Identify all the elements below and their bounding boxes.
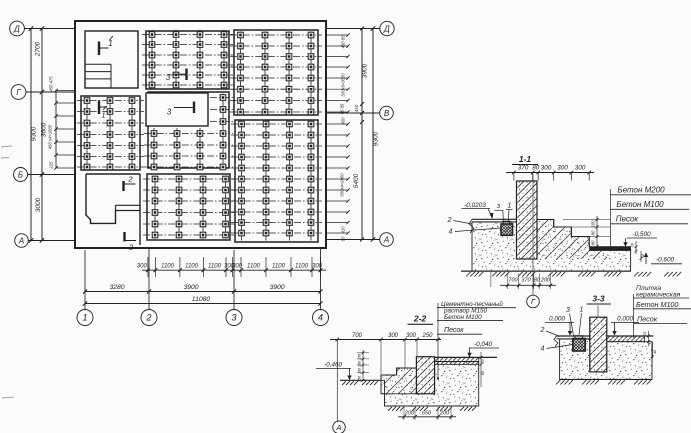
axis circle A right	[380, 233, 394, 247]
svg-text:85 85: 85 85	[340, 103, 345, 114]
svg-text:2: 2	[127, 175, 133, 184]
svg-text:-0,460: -0,460	[324, 362, 343, 369]
svg-text:1100: 1100	[161, 264, 175, 270]
right dimension line 3900/450/5400	[353, 27, 369, 242]
svg-text:1-1: 1-1	[519, 154, 532, 164]
svg-text:80: 80	[591, 240, 596, 245]
svg-text:2: 2	[145, 313, 151, 323]
section 1-1 axis circle G	[527, 295, 540, 308]
svg-text:3: 3	[566, 307, 570, 314]
svg-text:300: 300	[388, 333, 399, 339]
svg-text:9300: 9300	[31, 126, 38, 141]
section 2-2 mortar strip	[435, 357, 479, 364]
section 2-2 right depth dim	[480, 352, 485, 387]
svg-text:-0,500: -0,500	[632, 231, 651, 238]
svg-text:1100: 1100	[185, 264, 199, 270]
axis circle G left	[11, 85, 26, 100]
section 1-1 callout 1	[506, 203, 513, 222]
axis circle V right	[380, 106, 394, 120]
svg-text:370: 370	[518, 165, 529, 172]
section 2-2 base slab bottom	[385, 405, 479, 407]
svg-text:300: 300	[312, 264, 323, 270]
bottom span dimension row 3280/3900/3900	[83, 284, 323, 294]
axis line D (right)	[326, 28, 380, 30]
section 2-2 base slab hatching	[388, 407, 476, 411]
section 1-1 column socket	[501, 221, 513, 235]
svg-text:300: 300	[406, 333, 417, 339]
section 3-3 title	[587, 294, 612, 305]
svg-text:80: 80	[341, 236, 346, 241]
axis circle A left	[15, 234, 29, 248]
section 2-2 left ground hatching	[342, 381, 378, 385]
svg-text:2: 2	[540, 327, 545, 334]
svg-text:Б: Б	[18, 170, 23, 179]
svg-text:300: 300	[232, 264, 243, 270]
svg-text:300: 300	[575, 165, 586, 172]
section 2-2 axis extension to circle A	[336, 340, 338, 421]
section 3-3 wall block	[590, 317, 607, 372]
section 1-1 callout 4	[449, 228, 501, 236]
section 2-2 footing steps hatch	[381, 368, 416, 394]
axis circle 1	[77, 310, 93, 326]
svg-text:А: А	[18, 236, 24, 245]
svg-text:225: 225	[49, 161, 54, 170]
svg-text:Г: Г	[16, 88, 21, 97]
svg-text:Бетон М200: Бетон М200	[617, 186, 665, 195]
axis circle 2	[141, 310, 157, 326]
svg-text:450 х4=1800: 450 х4=1800	[48, 124, 53, 149]
svg-text:1100: 1100	[247, 264, 261, 270]
section 1-1 step height dims 100/80/80	[563, 216, 610, 248]
section flag 2 (room I)	[124, 175, 136, 192]
svg-text:100: 100	[591, 220, 596, 228]
pile field room D	[77, 96, 144, 170]
svg-text:Песок: Песок	[444, 327, 464, 334]
svg-text:250: 250	[421, 333, 433, 339]
section 1-1 material labels	[611, 186, 691, 224]
section 3-3 elevation 0.000 left	[545, 316, 574, 336]
svg-text:з: з	[496, 203, 501, 210]
section 2-2 material labels	[437, 300, 516, 334]
section 1-1 floor slab strip (right, -0.500)	[589, 247, 630, 251]
svg-text:4: 4	[318, 313, 323, 323]
section 3-3 column socket	[573, 336, 586, 351]
svg-text:Песок: Песок	[637, 315, 658, 324]
svg-text:3000: 3000	[35, 197, 42, 212]
svg-text:370: 370	[521, 278, 531, 284]
svg-text:В: В	[384, 109, 390, 118]
section 1-1 ground line	[461, 270, 631, 272]
axis line B (left)	[28, 174, 76, 176]
section 3-3 material leader line	[633, 294, 635, 338]
left overall dimension line 9300	[29, 26, 38, 242]
section 1-1 elevation -0.500	[623, 231, 657, 247]
svg-text:2: 2	[447, 217, 452, 224]
section 3-3 right thickness dims	[643, 331, 657, 358]
axis circle B left	[14, 168, 28, 182]
section 1-1 title	[512, 154, 538, 165]
section 1-1 footing steps hatch	[537, 220, 607, 260]
section 2-2 floor line right	[435, 356, 497, 358]
svg-text:1: 1	[82, 313, 87, 323]
svg-text:300: 300	[541, 165, 552, 172]
svg-text:4: 4	[541, 346, 545, 353]
svg-text:1100: 1100	[295, 264, 309, 270]
svg-text:1100: 1100	[272, 264, 286, 270]
axis line A (right)	[326, 239, 380, 241]
svg-text:4: 4	[449, 229, 453, 236]
section 3-3 floor line right	[607, 335, 654, 337]
section 3-3 ground hatching	[556, 380, 651, 384]
svg-text:100: 100	[358, 367, 362, 374]
pile field room H	[231, 120, 322, 242]
svg-text:450: 450	[354, 104, 359, 112]
svg-text:200: 200	[404, 410, 415, 416]
section 3-3 callout 2	[540, 327, 560, 337]
section 1-1 step profile	[537, 220, 589, 247]
svg-text:2-2: 2-2	[413, 314, 427, 324]
scan artifact marks	[1, 146, 14, 398]
svg-text:1100: 1100	[208, 264, 222, 270]
svg-text:Д: Д	[13, 24, 20, 33]
pile field room B	[142, 31, 233, 89]
svg-text:Бетон М100: Бетон М100	[444, 314, 482, 321]
section 1-1 sand bedding mass	[472, 220, 631, 272]
svg-text:3-3: 3-3	[592, 294, 605, 304]
svg-text:1: 1	[101, 111, 105, 120]
section 1-1 floor slab (left)	[469, 219, 517, 233]
section 2-2 elevation -0.040	[467, 341, 499, 357]
svg-text:Песок: Песок	[616, 215, 640, 224]
section 3-3 floor left	[554, 336, 590, 347]
svg-text:А: А	[335, 423, 341, 432]
svg-text:200: 200	[540, 278, 551, 284]
svg-text:11080: 11080	[192, 296, 211, 303]
svg-text:2700: 2700	[35, 41, 42, 57]
room A walls (top-left, stairwell)	[85, 31, 138, 88]
svg-text:20: 20	[481, 359, 485, 365]
svg-text:5400: 5400	[353, 173, 360, 188]
svg-text:2: 2	[128, 243, 134, 252]
axis circle 4	[313, 310, 329, 326]
axis circle D right	[380, 21, 394, 35]
svg-text:-0,600: -0,600	[656, 257, 675, 264]
pile field room C	[230, 30, 322, 115]
svg-text:А: А	[383, 235, 389, 244]
section 2-2 left ground line	[340, 379, 381, 381]
section 1-1 material leader line	[610, 189, 612, 251]
left dimension line 2700/3600/3000	[35, 26, 48, 242]
section 3-3 callout 1	[579, 307, 584, 336]
section 2-2 top dimension 700/300/300/250	[330, 333, 441, 374]
section 2-2 left step dims	[357, 350, 369, 382]
section 2-2 material leader line	[437, 303, 439, 379]
section 2-2 elevation -0.460	[316, 362, 352, 381]
pile field room G	[143, 174, 234, 240]
section 2-2 sand and footing mass	[381, 362, 479, 407]
section 2-2 wall block	[416, 357, 434, 394]
section 3-3 callout 4	[541, 345, 573, 353]
section 3-3 tile floor strip	[607, 336, 645, 342]
svg-text:700: 700	[508, 278, 518, 284]
svg-text:3900: 3900	[362, 63, 369, 78]
section 1-1 callout 2	[447, 217, 472, 224]
section 2-2 axis circle A	[333, 421, 346, 433]
section 3-3 sand mass	[560, 339, 652, 379]
section 3-3 callout 3	[566, 307, 573, 336]
svg-text:450: 450	[341, 117, 346, 125]
axis circle D left	[10, 21, 25, 36]
section 3-3 material labels	[634, 285, 691, 324]
svg-text:1: 1	[580, 307, 584, 314]
section 1-1 top dimension line 370/80/300/300/300	[506, 165, 594, 181]
svg-text:1: 1	[108, 39, 112, 48]
section flag 3 (room E)	[167, 102, 194, 117]
svg-text:-0,040: -0,040	[474, 341, 493, 348]
svg-text:700: 700	[352, 333, 363, 339]
section 3-3 wall axis stub	[597, 306, 599, 318]
svg-text:100: 100	[358, 360, 362, 367]
room I walls (bottom-left with notch)	[86, 174, 140, 245]
svg-text:3900: 3900	[183, 284, 198, 291]
bottom axis extension lines	[85, 248, 321, 310]
svg-text:200: 200	[439, 410, 450, 416]
right pile-spacing tick lines	[326, 33, 350, 241]
bottom pile dimension row 300/1100	[137, 257, 326, 277]
section 2-2 title	[408, 314, 434, 325]
section flag 2 (below plan)	[125, 232, 137, 252]
svg-text:Бетон М100: Бетон М100	[636, 300, 678, 309]
bottom overall dimension 11080	[83, 296, 323, 306]
section 1-1 bottom dimension 700/370/80/200	[491, 272, 556, 289]
svg-text:500х6=3000: 500х6=3000	[341, 73, 346, 97]
svg-text:150: 150	[358, 353, 362, 360]
axis line D (left)	[24, 28, 75, 30]
section 1-1 brick wall	[517, 181, 538, 259]
svg-text:керамическая: керамическая	[636, 292, 681, 299]
room E walls (empty room, centre)	[146, 93, 208, 126]
section flag 1 (room A)	[99, 36, 113, 55]
svg-text:450 475: 450 475	[49, 76, 54, 92]
section 1-1 ground hatching	[466, 272, 681, 277]
svg-text:450 85: 450 85	[341, 35, 346, 48]
section 1-1 slab thickness dims	[631, 241, 646, 262]
section 3-3 ground line	[560, 378, 652, 380]
svg-text:0,000: 0,000	[617, 316, 633, 323]
section 3-3 elevation 0.000 right	[611, 316, 639, 336]
section 1-1 callout 3	[495, 203, 504, 223]
svg-text:410: 410	[341, 226, 346, 234]
svg-text:300: 300	[557, 165, 568, 172]
section flag 3 (room B)	[166, 69, 187, 83]
section 1-1 elevation -0.600	[644, 253, 682, 265]
svg-text:650: 650	[422, 410, 432, 416]
svg-text:3280: 3280	[109, 284, 124, 291]
svg-text:9300: 9300	[373, 131, 380, 146]
section 1-1 wall axis line	[532, 174, 534, 295]
left pile-spacing dimension line 450x4	[48, 76, 76, 170]
svg-text:0,000: 0,000	[549, 316, 565, 323]
svg-text:80: 80	[534, 278, 541, 284]
svg-text:20: 20	[631, 242, 635, 248]
axis circle 3	[226, 310, 242, 326]
svg-text:80: 80	[532, 165, 540, 172]
svg-text:-0,0203: -0,0203	[464, 202, 486, 209]
svg-text:3: 3	[166, 73, 171, 82]
svg-text:3: 3	[231, 313, 236, 323]
section 2-2 bottom dimension 200/650/200	[398, 407, 456, 420]
svg-text:300: 300	[137, 264, 148, 270]
right overall dimension line 9300	[371, 26, 380, 241]
svg-text:150: 150	[358, 375, 362, 382]
svg-text:3: 3	[167, 108, 172, 117]
pile field room F (L-shaped, centre)	[144, 92, 233, 170]
svg-text:1: 1	[508, 203, 512, 210]
svg-text:500х4=2000: 500х4=2000	[340, 173, 345, 197]
building outer wall outline	[75, 21, 326, 248]
svg-text:Бетон М100: Бетон М100	[616, 200, 664, 209]
section flag 1 (room D)	[99, 101, 107, 120]
axis line V (right)	[326, 112, 380, 114]
stair flight	[86, 64, 112, 88]
axis line G (left)	[26, 91, 75, 93]
svg-text:Д: Д	[383, 24, 390, 33]
svg-text:3900: 3900	[269, 284, 284, 291]
svg-text:80: 80	[591, 230, 596, 235]
svg-text:3600: 3600	[41, 122, 48, 137]
axis line A (left)	[29, 240, 76, 242]
section 1-1 elevation -0.0203	[462, 202, 494, 219]
